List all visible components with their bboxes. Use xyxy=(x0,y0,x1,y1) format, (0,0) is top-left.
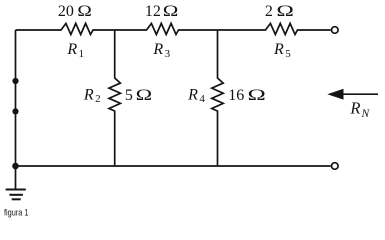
svg-text:RN: RN xyxy=(349,99,370,121)
svg-text:5: 5 xyxy=(125,87,133,104)
svg-text:2: 2 xyxy=(265,3,273,20)
svg-text:20: 20 xyxy=(58,3,74,20)
svg-text:Ω: Ω xyxy=(276,3,294,20)
svg-text:Ω: Ω xyxy=(77,3,92,20)
svg-text:R4: R4 xyxy=(187,87,205,106)
svg-text:R1: R1 xyxy=(66,41,84,60)
svg-text:R3: R3 xyxy=(152,41,170,60)
svg-text:R5: R5 xyxy=(273,41,291,60)
svg-text:Ω: Ω xyxy=(163,3,179,20)
svg-text:Ω: Ω xyxy=(248,87,266,104)
svg-text:figura 1: figura 1 xyxy=(4,208,29,219)
svg-text:R2: R2 xyxy=(83,87,101,106)
svg-text:12: 12 xyxy=(145,3,161,20)
svg-text:Ω: Ω xyxy=(136,87,153,104)
svg-text:16: 16 xyxy=(228,87,244,104)
